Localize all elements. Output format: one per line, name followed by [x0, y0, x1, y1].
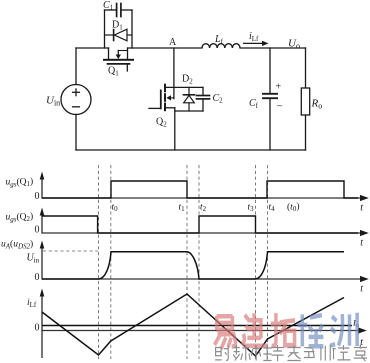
transistor Q1: [104, 48, 133, 71]
waveform iLf: [42, 294, 344, 356]
diode D2: [184, 87, 195, 111]
watermark big 易迪拓培训: [215, 313, 358, 349]
wire top rail mid: [128, 47, 203, 49]
wire bottom rail: [76, 149, 306, 151]
capacitor C2: [197, 87, 210, 111]
wire top rail right: [240, 47, 306, 49]
axis row3: [42, 278, 361, 280]
svg-text:0: 0: [35, 191, 40, 202]
svg-text:t: t: [360, 203, 363, 214]
svg-text:ugs(Q2): ugs(Q2): [6, 211, 34, 223]
wire top rail left: [76, 47, 109, 49]
wire Uin bottom: [75, 115, 77, 151]
svg-text:+: +: [276, 82, 282, 93]
svg-text:t: t: [360, 284, 363, 295]
dashed timing guides: [99, 165, 268, 359]
svg-text:ugs(Q1): ugs(Q1): [6, 176, 34, 188]
svg-text:0: 0: [35, 225, 40, 236]
axis row2: [42, 232, 361, 234]
diode D1: [105, 29, 133, 41]
wire D2 C2 box: [166, 87, 203, 111]
dashed Uin level: [43, 250, 98, 252]
svg-text:A: A: [169, 37, 177, 48]
inductor Lf: [202, 44, 240, 48]
wire Uin top: [75, 48, 77, 85]
svg-text:0: 0: [35, 272, 40, 283]
svg-text:0: 0: [35, 323, 40, 334]
watermark small 射频和天线设计专家: [215, 344, 367, 361]
transistor Q2: [149, 85, 175, 111]
source U1 Uin: [61, 85, 91, 115]
capacitor C1: [105, 4, 133, 49]
wire A branch lower: [174, 108, 176, 150]
svg-text:t: t: [360, 238, 363, 249]
arrow iLf: [243, 41, 269, 46]
axis row1: [42, 197, 361, 199]
line Io level: [42, 325, 352, 327]
resistor Ro: [301, 48, 309, 150]
waveform uA: [42, 252, 344, 279]
waveform ugs(Q1): [42, 181, 358, 198]
waveform ugs(Q2): [42, 216, 358, 233]
svg-text:−: −: [277, 101, 283, 113]
axis row4: [42, 330, 360, 332]
capacitor Cf: [263, 48, 277, 150]
wire node A vertical: [173, 48, 175, 99]
